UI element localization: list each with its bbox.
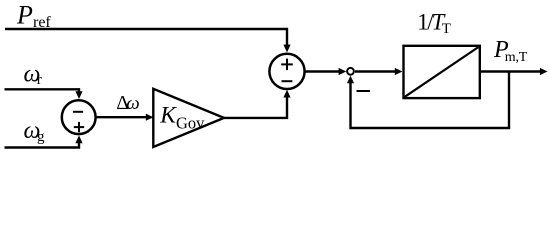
- feedback wire from output to node N1: [351, 72, 510, 129]
- arrow into node N1: [339, 68, 347, 75]
- arrow into S1 top: [75, 91, 82, 99]
- svg-text:ω: ω: [126, 93, 139, 114]
- node N1 (small circle): [347, 68, 354, 75]
- svg-text:T: T: [442, 21, 451, 37]
- svg-text:K: K: [159, 103, 177, 129]
- arrow into S2 top: [283, 45, 290, 53]
- summing junction S1: [62, 100, 96, 134]
- arrow into gain block: [146, 114, 154, 121]
- S2 minus sign: [282, 80, 293, 82]
- wire Pref to summing junction S2: [5, 29, 287, 46]
- wire turbine block to output: [481, 70, 540, 72]
- turbine block diagonal: [405, 47, 479, 97]
- wire omega_r to summing junction S1: [5, 89, 80, 92]
- minus label at node N1: [357, 90, 371, 92]
- label Delta omega: [116, 92, 140, 114]
- wire omega_g to summing junction S1: [5, 143, 80, 148]
- wire S2 to node N1: [305, 70, 339, 72]
- summing junction S2: [269, 54, 304, 89]
- label Pref: [16, 1, 51, 31]
- arrow into node N1 bottom: [347, 76, 354, 83]
- arrow into S2 bottom: [283, 90, 290, 98]
- wire gain block to summing junction S2: [224, 97, 287, 118]
- turbine block 1/TT: [404, 46, 480, 98]
- label 1/TT: [417, 10, 451, 37]
- label omega_r: [24, 62, 42, 89]
- wire node N1 to turbine block: [355, 70, 395, 72]
- gain block KGov triangle: [153, 89, 224, 147]
- label PmT: [493, 37, 528, 65]
- wire S1 to gain block: [96, 116, 147, 118]
- S2 plus sign: [281, 59, 293, 71]
- svg-text:g: g: [37, 129, 45, 145]
- label KGov: [159, 103, 205, 133]
- svg-text:Gov: Gov: [176, 114, 205, 133]
- S1 plus sign: [74, 122, 84, 132]
- arrow into S1 bottom: [75, 135, 82, 143]
- output arrow: [540, 68, 548, 75]
- label omega_g: [24, 118, 46, 145]
- svg-text:P: P: [16, 1, 33, 30]
- svg-text:m,T: m,T: [505, 50, 528, 65]
- arrow into turbine block: [395, 68, 403, 75]
- S1 minus sign: [73, 111, 83, 113]
- svg-text:r: r: [37, 72, 42, 88]
